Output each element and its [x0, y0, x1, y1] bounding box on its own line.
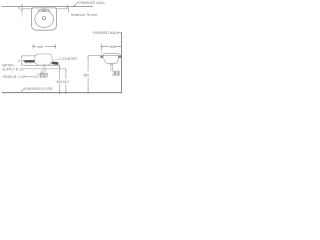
basin rim arc (front elevation) [35, 54, 53, 61]
dimension arrowheads [21, 5, 89, 93]
dimension 210 vertical [21, 56, 23, 59]
bowl circle (plan) [35, 11, 54, 28]
wire: floor leader [21, 89, 25, 93]
drain tailpiece (side view) [110, 65, 112, 72]
wire: rim-top reference line (210 top) [22, 55, 36, 57]
counter hatch ticks right [53, 65, 56, 67]
wire: finished wall line (side view) [121, 32, 123, 93]
basin rim lip (side view) [102, 53, 121, 55]
svg-text:406: 406 [110, 45, 116, 49]
svg-text:Minimum 76 mm.: Minimum 76 mm. [71, 13, 98, 17]
wire: reference line to dim 500 [22, 65, 60, 79]
drain circle (plan) [42, 17, 45, 20]
drain elbow flange (side view) [112, 71, 120, 75]
counter cut hatch right (side view) [118, 56, 121, 58]
dimension 406 (plan width) [33, 44, 55, 48]
counter cross-section left (front elevation) [24, 60, 34, 62]
svg-text:210: 210 [18, 59, 24, 63]
svg-text:DRAIN Ø 1 1/4": DRAIN Ø 1 1/4" [3, 75, 27, 79]
svg-text:FINISHED FLOOR: FINISHED FLOOR [25, 87, 53, 91]
wire: counter back edge left segment [22, 8, 32, 10]
trap outlet stub [47, 73, 49, 77]
svg-text:COUNTER: COUNTER [61, 57, 78, 61]
faucet lens (plan) [38, 9, 50, 11]
basin rim (plan view rounded square) [32, 8, 57, 30]
wire: finished wall line (plan view) [2, 6, 93, 8]
svg-text:850: 850 [84, 73, 90, 77]
svg-text:FINISHED WALL: FINISHED WALL [80, 1, 106, 5]
wire: finished floor line [2, 92, 122, 94]
wire: counter back edge right segment [56, 8, 67, 10]
bowl underside (front elevation) [35, 62, 51, 65]
svg-text:SUPPLY Ø 1/2": SUPPLY Ø 1/2" [2, 67, 26, 71]
drain junction (side view) [110, 64, 113, 65]
bowl underside (side view) [104, 58, 119, 64]
wire: wall leader dash (side view) [118, 31, 122, 33]
svg-text:406: 406 [37, 45, 43, 49]
svg-text:FINISHED WALL: FINISHED WALL [93, 31, 119, 35]
wire: counter leader [54, 58, 60, 61]
node: wall end tick [66, 4, 68, 8]
trap hatched body (front elevation) [35, 68, 47, 78]
node: extension line at x22 [21, 4, 23, 12]
counter cut hatch left (side view) [100, 56, 103, 58]
wire: drain leader dash [25, 76, 35, 78]
dimension 850 vertical (side view) [87, 56, 89, 72]
wire: supply reference line to dim 610 [25, 69, 66, 79]
svg-text:76: 76 [18, 6, 22, 10]
dimension 500 vertical lower part [59, 84, 61, 94]
dimension 610 vertical lower part [65, 84, 67, 95]
faucet spout circle [43, 9, 46, 12]
svg-text:610: 610 [63, 80, 69, 84]
dimension 406 (side view) [100, 44, 102, 49]
drain tailpiece (front elevation) [42, 64, 44, 68]
wire: leader to FINISHED WALL (plan) [74, 3, 80, 7]
wire: counter line (side view) [88, 55, 121, 57]
counter hatch ticks left [26, 63, 30, 65]
counter cross-section right (front elevation) [52, 62, 59, 65]
svg-text:500: 500 [57, 80, 63, 84]
